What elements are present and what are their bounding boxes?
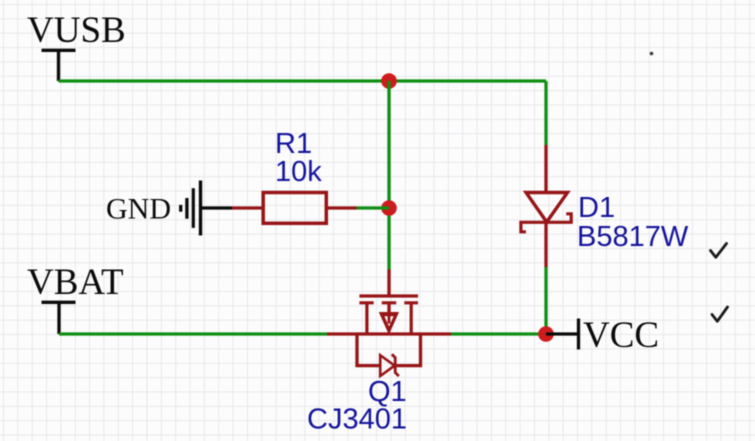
power port VBAT — [27, 262, 124, 334]
wire VBAT to Q1 source — [59, 332, 327, 335]
power port VUSB — [27, 10, 126, 81]
svg-text:B5817W: B5817W — [577, 221, 689, 253]
ground symbol — [181, 181, 232, 236]
wire vertical from R1 node to Q1 gate — [387, 208, 390, 270]
wire R1 to junction — [357, 206, 390, 209]
stray mark — [650, 52, 654, 56]
resistor R1 — [232, 193, 357, 224]
svg-text:CJ3401: CJ3401 — [307, 404, 407, 436]
wire Q1 drain to VCC junction — [451, 332, 546, 335]
wire vertical from top junction to R1 node — [387, 81, 390, 208]
svg-text:GND: GND — [106, 193, 171, 226]
checkmark 1 — [711, 244, 727, 258]
wire top horizontal VUSB net — [59, 79, 547, 82]
svg-text:10k: 10k — [275, 156, 322, 188]
svg-text:VCC: VCC — [583, 315, 659, 356]
svg-text:D1: D1 — [578, 192, 615, 224]
junction dot VCC node — [538, 326, 554, 342]
svg-text:VBAT: VBAT — [27, 262, 124, 303]
wire vertical drop to D1 — [544, 81, 547, 145]
transistor Q1 (P-MOSFET with body diode) — [327, 270, 451, 377]
checkmark 2 — [712, 307, 728, 321]
junction dot top (VUSB net / R1 branch) — [381, 73, 397, 89]
svg-text:VUSB: VUSB — [27, 10, 126, 51]
power port VCC — [546, 315, 659, 356]
wire D1 to VCC junction — [544, 267, 547, 334]
junction dot R1 output node — [381, 200, 397, 216]
diode D1 (schottky) — [521, 145, 571, 267]
